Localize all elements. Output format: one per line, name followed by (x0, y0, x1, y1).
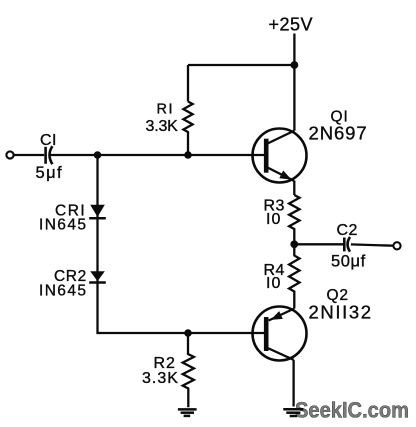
resistor R4 (289, 244, 299, 308)
wire Q1 emitter to R3 (293, 181, 295, 196)
output terminal (393, 242, 400, 249)
wire C1 to Q1 base (51, 154, 265, 156)
svg-text:3.3K: 3.3K (142, 370, 179, 387)
diode CR1 (89, 205, 106, 219)
svg-text:2NII32: 2NII32 (309, 301, 373, 322)
svg-text:RI: RI (157, 101, 175, 117)
svg-text:50μf: 50μf (331, 252, 366, 270)
node input junction (94, 151, 102, 159)
wire input to C1 (14, 154, 45, 156)
wire R1 top to supply (188, 64, 294, 66)
svg-text:I0: I0 (266, 211, 281, 228)
wire C2 to output terminal (351, 244, 393, 245)
wire diode chain to Q2 base (98, 155, 265, 333)
node R1 junction (184, 151, 192, 159)
capacitor C1 (46, 146, 53, 164)
supply +25V lead (293, 34, 295, 131)
node supply junction (291, 61, 299, 69)
transistor Q1 (253, 129, 307, 183)
node output junction (290, 240, 298, 248)
capacitor C2 (344, 237, 350, 252)
wire junction to C2 (294, 243, 343, 245)
wire Q2 collector to ground (292, 360, 294, 407)
node R2 junction (184, 329, 192, 337)
svg-text:SeekIC.com: SeekIC.com (295, 398, 409, 423)
svg-text:IN645: IN645 (39, 217, 87, 234)
svg-text:2N697: 2N697 (309, 122, 368, 143)
input terminal (6, 151, 13, 158)
svg-text:3.3K: 3.3K (146, 118, 179, 135)
transistor Q2 (253, 307, 307, 361)
svg-text:CI: CI (40, 132, 57, 149)
svg-text:I0: I0 (266, 275, 281, 292)
svg-text:IN645: IN645 (39, 282, 87, 299)
resistor R1 (183, 65, 192, 155)
ground Q2 (283, 409, 303, 416)
diode CR2 (89, 271, 106, 282)
svg-text:+25V: +25V (269, 14, 314, 34)
resistor R2 (183, 333, 194, 407)
resistor R3 (289, 195, 299, 244)
svg-text:5μf: 5μf (36, 164, 63, 182)
ground R2 (178, 409, 197, 416)
svg-text:C2: C2 (337, 222, 358, 239)
